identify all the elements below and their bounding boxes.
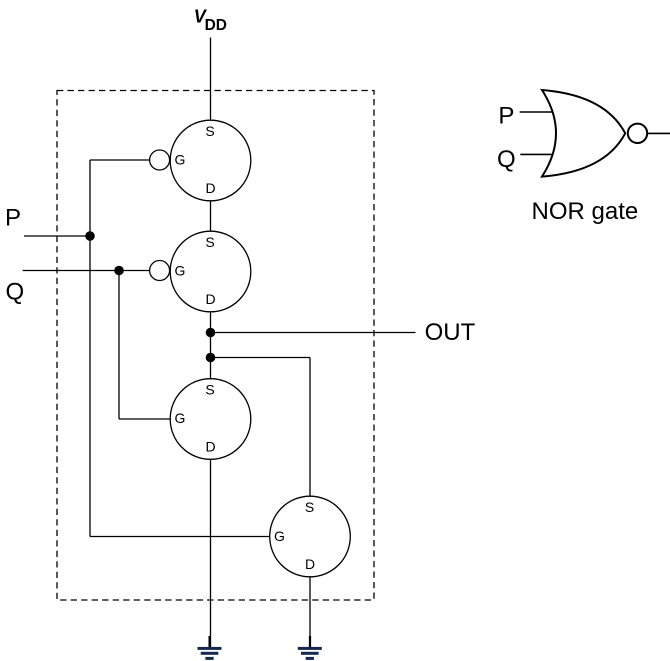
svg-text:G: G — [175, 262, 186, 278]
wire M3 drain to ground 1 — [210, 459, 212, 647]
ground symbol 1 — [198, 636, 222, 660]
dashed CMOS cell boundary box — [57, 91, 374, 601]
wire OUT — [211, 332, 416, 334]
svg-text:NOR gate: NOR gate — [532, 198, 639, 225]
ground symbol 2 — [298, 636, 322, 660]
wire M1 drain to M2 source — [210, 201, 212, 231]
svg-text:Q: Q — [6, 278, 25, 305]
svg-text:S: S — [205, 234, 214, 250]
svg-text:S: S — [205, 123, 214, 139]
wire VDD to M1 source — [210, 38, 212, 121]
svg-text:OUT: OUT — [425, 319, 476, 346]
gate bubble of M2 — [150, 261, 170, 281]
NOR gate P input wire — [520, 111, 552, 113]
wire P input — [24, 235, 90, 237]
NOR gate output bubble — [628, 124, 647, 143]
svg-text:S: S — [305, 499, 314, 515]
node junction dot to M4 source — [206, 353, 216, 363]
node Q junction dot — [114, 266, 124, 276]
svg-text:G: G — [175, 151, 186, 167]
svg-text:P: P — [498, 103, 514, 130]
svg-text:G: G — [274, 528, 285, 544]
svg-text:DD: DD — [205, 17, 227, 34]
wire M2 drain to M3 source (output node) — [210, 312, 212, 379]
svg-text:D: D — [205, 291, 215, 307]
transistor M2 (PMOS, gate Q) — [170, 231, 251, 312]
NOR gate Q input wire — [520, 153, 553, 155]
transistor M1 (PMOS, gate P) — [170, 120, 251, 201]
wire to M1 gate bubble — [90, 159, 150, 161]
NOR gate output wire — [647, 132, 670, 134]
wire to M3 gate — [119, 418, 170, 420]
wire output node to M4 source (vertical) — [309, 358, 311, 497]
wire M4 drain to ground 2 — [309, 577, 311, 647]
transistor M4 (NMOS, gate P) — [270, 496, 351, 577]
node OUT junction dot — [206, 328, 216, 338]
node P junction dot — [85, 231, 95, 241]
gate bubble of M1 — [150, 150, 170, 170]
svg-text:Q: Q — [497, 146, 516, 173]
wire Q net vertical to M3 gate — [118, 271, 120, 420]
svg-text:D: D — [305, 556, 315, 572]
wire P net vertical (to M1 bubble and M4 gate) — [89, 160, 91, 537]
svg-text:G: G — [175, 410, 186, 426]
svg-text:D: D — [205, 439, 215, 455]
wire Q input to M2 bubble — [23, 270, 150, 272]
wire output node to M4 source (horizontal) — [211, 357, 311, 359]
NOR gate symbol — [542, 90, 625, 177]
svg-text:S: S — [205, 382, 214, 398]
svg-text:P: P — [5, 204, 21, 231]
wire to M4 gate — [90, 536, 270, 538]
svg-text:D: D — [205, 180, 215, 196]
transistor M3 (NMOS, gate Q) — [170, 379, 251, 460]
